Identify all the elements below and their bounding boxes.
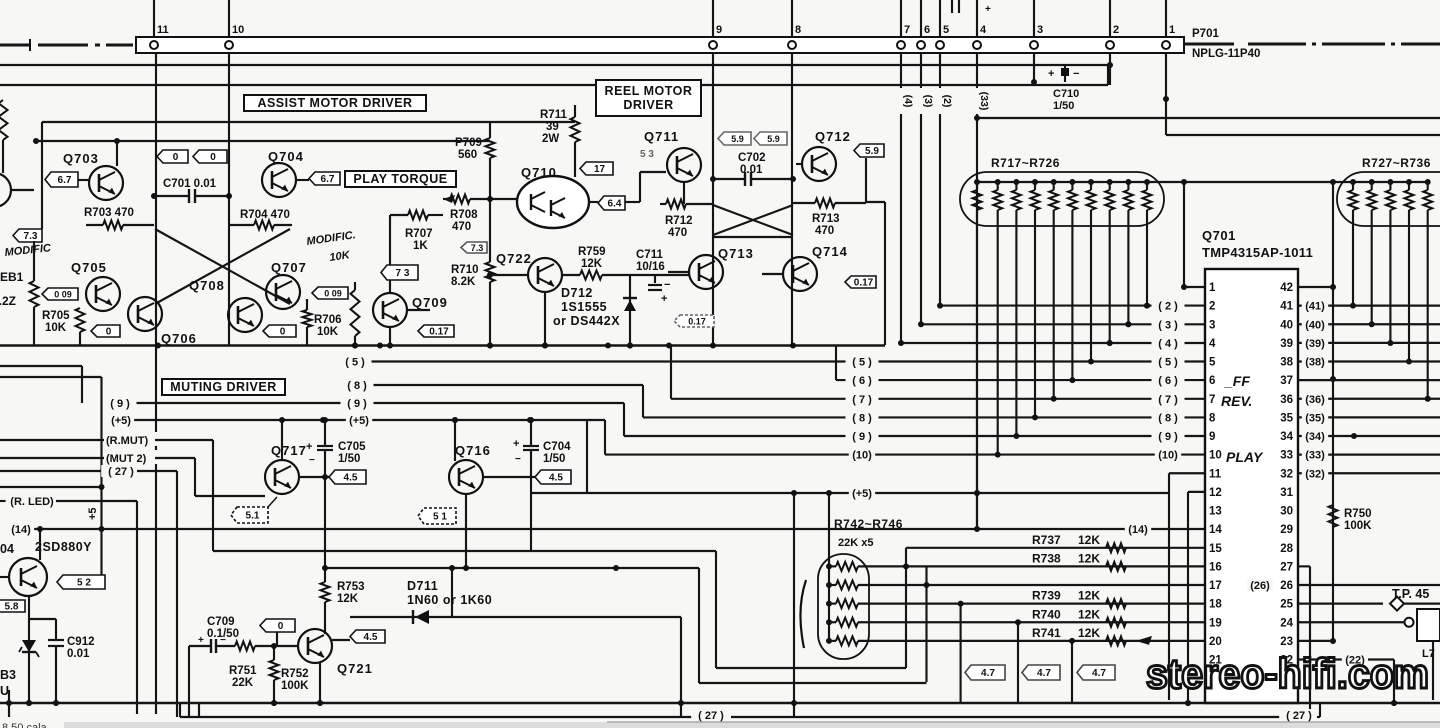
svg-text:26: 26 — [1280, 580, 1293, 592]
svg-text:C705: C705 — [338, 441, 366, 453]
svg-text:100K: 100K — [281, 680, 309, 692]
svg-text:( 5 ): ( 5 ) — [1158, 357, 1178, 369]
svg-text:Q707: Q707 — [271, 260, 307, 275]
svg-text:−: − — [515, 454, 521, 465]
svg-text:R739: R739 — [1032, 589, 1061, 603]
svg-text:( 27 ): ( 27 ) — [108, 466, 134, 478]
svg-text:( 5 ): ( 5 ) — [345, 357, 365, 369]
svg-text:25: 25 — [1280, 599, 1293, 611]
svg-text:( 27 ): ( 27 ) — [698, 710, 724, 722]
svg-text:P709: P709 — [455, 137, 482, 149]
svg-text:5 1: 5 1 — [433, 512, 447, 523]
svg-text:( 5 ): ( 5 ) — [852, 357, 872, 369]
svg-text:R738: R738 — [1032, 551, 1061, 565]
svg-text:Q704: Q704 — [268, 149, 304, 164]
svg-text:10: 10 — [1209, 450, 1222, 462]
svg-text:12K: 12K — [1078, 533, 1100, 547]
svg-text:38: 38 — [1280, 357, 1293, 369]
svg-text:9: 9 — [716, 24, 722, 36]
svg-text:(14): (14) — [1128, 524, 1148, 536]
svg-text:C710: C710 — [1053, 88, 1079, 100]
svg-text:36: 36 — [1280, 394, 1293, 406]
svg-text:22K x5: 22K x5 — [838, 537, 873, 549]
svg-text:R727~R736: R727~R736 — [1362, 156, 1431, 170]
svg-text:( 9 ): ( 9 ) — [1158, 431, 1178, 443]
svg-text:27: 27 — [1280, 561, 1293, 573]
svg-text:R717~R726: R717~R726 — [991, 156, 1060, 170]
svg-text:4.5: 4.5 — [549, 473, 563, 484]
svg-text:10: 10 — [232, 24, 244, 36]
svg-text:12K: 12K — [1078, 589, 1100, 603]
svg-text:2: 2 — [1209, 301, 1215, 313]
svg-text:9: 9 — [1209, 431, 1215, 443]
svg-text:Q722: Q722 — [496, 251, 532, 266]
svg-text:(33): (33) — [978, 92, 990, 111]
svg-text:22K: 22K — [232, 677, 254, 689]
svg-text:0.01: 0.01 — [67, 648, 90, 660]
svg-text:19: 19 — [1209, 617, 1222, 629]
svg-text:R705: R705 — [42, 310, 70, 322]
svg-text:2SD880Y: 2SD880Y — [35, 540, 92, 554]
svg-text:(35): (35) — [1305, 412, 1325, 424]
svg-text:( 9 ): ( 9 ) — [347, 398, 367, 410]
svg-text:16: 16 — [1209, 561, 1222, 573]
svg-text:5: 5 — [943, 24, 949, 36]
svg-text:+: + — [985, 4, 991, 15]
svg-text:1K: 1K — [413, 240, 428, 252]
svg-text:DRIVER: DRIVER — [623, 98, 673, 112]
svg-text:4.5: 4.5 — [364, 632, 378, 643]
svg-text:3: 3 — [1209, 319, 1215, 331]
svg-text:( 6 ): ( 6 ) — [852, 375, 872, 387]
svg-text:−: − — [664, 279, 670, 291]
svg-text:(14): (14) — [11, 524, 31, 536]
svg-text:17: 17 — [594, 164, 606, 175]
svg-text:1S1555: 1S1555 — [561, 300, 607, 314]
svg-text:+: + — [306, 441, 312, 453]
svg-text:R759: R759 — [578, 246, 606, 258]
svg-text:R707: R707 — [405, 228, 433, 240]
svg-text:R753: R753 — [337, 581, 365, 593]
svg-text:Q713: Q713 — [718, 246, 754, 261]
svg-text:R711: R711 — [540, 109, 567, 121]
svg-text:5 3: 5 3 — [640, 149, 654, 160]
svg-text:6.7: 6.7 — [321, 174, 335, 185]
svg-text:4: 4 — [1209, 338, 1216, 350]
svg-text:0 09: 0 09 — [324, 289, 342, 299]
svg-text:1: 1 — [1169, 24, 1175, 36]
svg-text:−: − — [309, 455, 315, 466]
svg-text:TMP4315AP-1011: TMP4315AP-1011 — [1202, 245, 1313, 260]
svg-text:17: 17 — [1209, 580, 1222, 592]
svg-text:4.7: 4.7 — [1037, 668, 1051, 679]
svg-text:1/50: 1/50 — [543, 453, 565, 465]
svg-text:(3): (3) — [922, 95, 934, 108]
svg-text:( 8 ): ( 8 ) — [852, 412, 872, 424]
svg-text:stereo-hifi.com: stereo-hifi.com — [1146, 650, 1429, 697]
svg-text:11: 11 — [157, 24, 169, 36]
svg-text:3: 3 — [1037, 24, 1043, 36]
svg-text:( 3 ): ( 3 ) — [1158, 319, 1178, 331]
svg-text:(34): (34) — [1305, 431, 1325, 443]
svg-text:0: 0 — [106, 327, 112, 338]
svg-text:R751: R751 — [229, 665, 257, 677]
svg-text:Q712: Q712 — [815, 129, 851, 144]
svg-text:ASSIST MOTOR DRIVER: ASSIST MOTOR DRIVER — [257, 96, 412, 110]
svg-text:7: 7 — [904, 24, 910, 36]
svg-text:REV.: REV. — [1221, 393, 1252, 409]
svg-text:12K: 12K — [581, 258, 603, 270]
svg-text:5.1: 5.1 — [246, 511, 260, 522]
svg-text:R740: R740 — [1032, 607, 1061, 621]
svg-text:(36): (36) — [1305, 394, 1325, 406]
svg-text:+5: +5 — [87, 507, 99, 520]
svg-text:(4): (4) — [902, 95, 914, 108]
svg-text:0.17: 0.17 — [854, 278, 874, 289]
svg-text:(26): (26) — [1250, 580, 1270, 592]
svg-text:10/16: 10/16 — [636, 261, 665, 273]
svg-text:D711: D711 — [407, 579, 438, 593]
svg-text:( 9 ): ( 9 ) — [110, 398, 130, 410]
svg-text:(33): (33) — [1305, 450, 1325, 462]
svg-text:8: 8 — [1209, 412, 1216, 424]
svg-text:7: 7 — [1209, 394, 1215, 406]
svg-text:10K: 10K — [317, 326, 339, 338]
svg-text:0.17: 0.17 — [688, 317, 706, 327]
svg-text:R742~R746: R742~R746 — [834, 517, 903, 531]
svg-text:6.4: 6.4 — [608, 199, 622, 210]
svg-text:Q705: Q705 — [71, 260, 107, 275]
svg-text:P701: P701 — [1192, 28, 1219, 40]
svg-text:39: 39 — [1280, 338, 1293, 350]
svg-text:( 6 ): ( 6 ) — [1158, 375, 1178, 387]
svg-text:1/50: 1/50 — [338, 453, 360, 465]
svg-text:C702: C702 — [738, 152, 766, 164]
svg-text:41: 41 — [1280, 301, 1293, 313]
svg-text:20: 20 — [1209, 636, 1222, 648]
svg-text:(10): (10) — [1158, 450, 1178, 462]
svg-text:31: 31 — [1280, 487, 1293, 499]
svg-text:R704 470: R704 470 — [240, 209, 290, 221]
svg-text:T.P. 45: T.P. 45 — [1392, 587, 1429, 601]
svg-text:14: 14 — [1209, 524, 1222, 536]
svg-text:0: 0 — [278, 621, 284, 632]
svg-text:Q717: Q717 — [271, 443, 307, 458]
svg-text:Q701: Q701 — [1202, 228, 1236, 243]
svg-text:8: 8 — [795, 24, 801, 36]
svg-text:Q706: Q706 — [161, 331, 197, 346]
svg-text:Q709: Q709 — [412, 295, 448, 310]
svg-text:1N60 or 1K60: 1N60 or 1K60 — [407, 593, 492, 607]
svg-text:(MUT 2): (MUT 2) — [106, 453, 147, 465]
svg-text:10K: 10K — [45, 322, 67, 334]
svg-text:−: − — [1073, 68, 1079, 80]
svg-text:04: 04 — [0, 542, 14, 556]
svg-text:Q714: Q714 — [812, 244, 848, 259]
svg-text:15: 15 — [1209, 543, 1222, 555]
svg-text:37: 37 — [1280, 375, 1293, 387]
svg-text:1.2Z: 1.2Z — [0, 294, 16, 308]
svg-text:−: − — [220, 635, 226, 646]
svg-text:( 8 ): ( 8 ) — [1158, 412, 1178, 424]
svg-text:R712: R712 — [665, 215, 693, 227]
svg-text:Q703: Q703 — [63, 151, 99, 166]
svg-text:100K: 100K — [1344, 520, 1372, 532]
svg-text:NPLG-11P40: NPLG-11P40 — [1192, 48, 1260, 60]
svg-text:4.5: 4.5 — [344, 473, 358, 484]
svg-text:24: 24 — [1280, 617, 1293, 629]
svg-text:R737: R737 — [1032, 533, 1061, 547]
svg-text:C912: C912 — [67, 636, 95, 648]
svg-text:R750: R750 — [1344, 508, 1372, 520]
svg-text:7 3: 7 3 — [396, 268, 410, 279]
svg-text:(38): (38) — [1305, 357, 1325, 369]
svg-text:6: 6 — [1209, 375, 1215, 387]
svg-text:0.17: 0.17 — [429, 327, 449, 338]
svg-text:1: 1 — [1209, 282, 1216, 294]
svg-text:R708: R708 — [450, 209, 478, 221]
svg-text:( 8 ): ( 8 ) — [347, 380, 367, 392]
svg-text:(10): (10) — [852, 450, 872, 462]
svg-text:12K: 12K — [337, 593, 359, 605]
svg-text:+: + — [1048, 68, 1054, 80]
svg-text:(2): (2) — [941, 95, 953, 108]
svg-text:( 9 ): ( 9 ) — [852, 431, 872, 443]
svg-text:C711: C711 — [636, 249, 663, 261]
svg-text:R703 470: R703 470 — [84, 207, 134, 219]
svg-text:12K: 12K — [1078, 551, 1100, 565]
svg-text:5 2: 5 2 — [77, 578, 91, 589]
svg-text:12K: 12K — [1078, 607, 1100, 621]
svg-text:R741: R741 — [1032, 626, 1061, 640]
svg-text:11: 11 — [1209, 468, 1222, 480]
svg-text:5.9: 5.9 — [731, 134, 744, 144]
svg-text:5.8: 5.8 — [5, 602, 19, 613]
svg-text:C709: C709 — [207, 616, 235, 628]
svg-text:Q716: Q716 — [455, 443, 491, 458]
svg-text:0: 0 — [173, 152, 179, 163]
svg-text:6: 6 — [924, 24, 930, 36]
svg-text:(+5): (+5) — [111, 415, 131, 427]
svg-text:+: + — [661, 293, 667, 305]
svg-text:( 2 ): ( 2 ) — [1158, 301, 1178, 313]
svg-text:( 27 ): ( 27 ) — [1286, 710, 1312, 722]
svg-text:0: 0 — [280, 327, 286, 338]
svg-text:( 7 ): ( 7 ) — [852, 394, 872, 406]
svg-text:Q708: Q708 — [189, 278, 225, 293]
svg-text:7.3: 7.3 — [24, 231, 38, 242]
svg-text:1/50: 1/50 — [1053, 100, 1074, 112]
svg-text:(R.MUT): (R.MUT) — [106, 435, 148, 447]
svg-text:8.50 cala: 8.50 cala — [2, 722, 48, 728]
svg-text:18: 18 — [1209, 599, 1222, 611]
svg-text:5.9: 5.9 — [767, 134, 780, 144]
svg-text:+: + — [198, 635, 204, 646]
svg-text:(+5): (+5) — [852, 488, 872, 500]
svg-text:D712: D712 — [561, 286, 593, 300]
svg-text:40: 40 — [1280, 319, 1293, 331]
svg-text:+: + — [513, 438, 519, 450]
svg-text:470: 470 — [815, 225, 834, 237]
svg-text:B3: B3 — [0, 668, 16, 682]
svg-text:4.7: 4.7 — [1092, 668, 1106, 679]
svg-text:U: U — [0, 684, 9, 698]
svg-text:34: 34 — [1280, 431, 1293, 443]
svg-text:R706: R706 — [314, 314, 342, 326]
svg-text:32: 32 — [1280, 468, 1293, 480]
svg-text:8.2K: 8.2K — [451, 276, 476, 288]
svg-text:12K: 12K — [1078, 626, 1100, 640]
svg-text:C701 0.01: C701 0.01 — [163, 178, 217, 190]
svg-text:R710: R710 — [451, 264, 479, 276]
svg-text:12: 12 — [1209, 487, 1222, 499]
svg-text:Q710: Q710 — [521, 165, 557, 180]
svg-text:(40): (40) — [1305, 319, 1325, 331]
svg-text:(39): (39) — [1305, 338, 1325, 350]
svg-text:PLAY: PLAY — [1226, 449, 1264, 465]
svg-text:4.7: 4.7 — [981, 668, 995, 679]
svg-text:7.3: 7.3 — [471, 243, 484, 253]
svg-text:2: 2 — [1113, 24, 1119, 36]
svg-text:( 4 ): ( 4 ) — [1158, 338, 1178, 350]
svg-text:(R. LED): (R. LED) — [10, 496, 54, 508]
svg-text:35: 35 — [1280, 412, 1293, 424]
svg-text:Q711: Q711 — [644, 129, 679, 144]
svg-text:39: 39 — [546, 121, 559, 133]
svg-text:(+5): (+5) — [349, 415, 369, 427]
svg-text:0: 0 — [210, 152, 216, 163]
svg-text:5: 5 — [1209, 357, 1216, 369]
svg-text:0 09: 0 09 — [54, 290, 72, 300]
svg-text:4: 4 — [980, 24, 987, 36]
svg-text:2W: 2W — [542, 133, 559, 145]
svg-text:23: 23 — [1280, 636, 1293, 648]
svg-text:Q721: Q721 — [337, 661, 373, 676]
svg-text:PLAY TORQUE: PLAY TORQUE — [353, 172, 447, 186]
svg-text:or DS442X: or DS442X — [553, 314, 620, 328]
svg-text:SEB1: SEB1 — [0, 270, 24, 284]
svg-text:470: 470 — [452, 221, 471, 233]
svg-text:( 7 ): ( 7 ) — [1158, 394, 1178, 406]
svg-text:MUTING DRIVER: MUTING DRIVER — [170, 380, 277, 394]
svg-text:560: 560 — [458, 149, 477, 161]
svg-text:29: 29 — [1280, 524, 1293, 536]
svg-text:6.7: 6.7 — [58, 175, 72, 186]
svg-text:R713: R713 — [812, 213, 840, 225]
svg-text:REEL MOTOR: REEL MOTOR — [605, 84, 693, 98]
svg-text:(41): (41) — [1305, 301, 1325, 313]
svg-text:5.9: 5.9 — [865, 146, 879, 157]
svg-text:_FF: _FF — [1224, 373, 1250, 389]
svg-text:R752: R752 — [281, 668, 309, 680]
svg-text:28: 28 — [1280, 543, 1293, 555]
svg-text:42: 42 — [1280, 282, 1293, 294]
svg-text:13: 13 — [1209, 506, 1222, 518]
svg-text:30: 30 — [1280, 506, 1293, 518]
svg-text:470: 470 — [668, 227, 687, 239]
svg-text:(32): (32) — [1305, 468, 1325, 480]
svg-text:C704: C704 — [543, 441, 571, 453]
svg-text:33: 33 — [1280, 450, 1293, 462]
